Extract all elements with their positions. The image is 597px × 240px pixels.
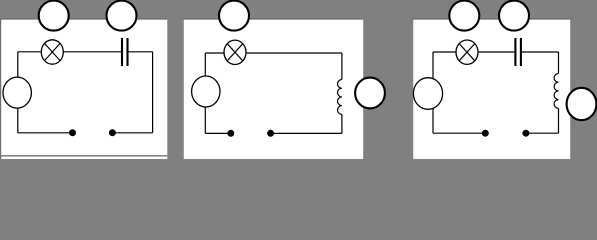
lamp B3 (circle with X) xyxy=(456,40,478,64)
wire: top right segment (capacitor to corner) xyxy=(522,51,559,53)
panel 3 top border xyxy=(412,18,570,20)
source G3 (circle overlapping left wire) xyxy=(413,78,442,110)
terminal circle T3b (above capacitor) xyxy=(499,1,529,31)
spare terminal circle (in gutter right of panel 2) xyxy=(355,78,385,109)
wire: left vertical xyxy=(204,53,206,133)
wire: right vertical xyxy=(152,52,154,133)
wire: right vertical lower (coil to corner) xyxy=(558,108,560,133)
spare terminal circle (right margin of panel 3) xyxy=(567,88,597,120)
source G1 (circle on left wire) xyxy=(3,77,31,108)
wire: bottom right segment xyxy=(112,132,152,134)
capacitor C1 plate right xyxy=(126,38,128,66)
panel 1 top border xyxy=(0,18,167,20)
switch contact dot left xyxy=(227,130,234,137)
wire: bottom right segment xyxy=(526,132,559,134)
wire: right vertical upper (to coil) xyxy=(341,53,343,80)
terminal circle T3a (above lamp) xyxy=(449,1,479,31)
panel 3 background xyxy=(412,20,570,160)
wire: top left segment (corner to capacitor) xyxy=(18,51,122,53)
terminal circle T1b (above capacitor) xyxy=(107,1,137,31)
switch contact dot right xyxy=(267,130,274,137)
panel 1 bottom edge line xyxy=(0,155,167,157)
panel 2 top border xyxy=(183,18,364,20)
panel 2 background xyxy=(183,20,364,160)
panel 3 left border xyxy=(412,19,414,159)
terminal circle T2 (above lamp) xyxy=(219,1,249,31)
switch contact dot right xyxy=(109,129,116,136)
switch contact dot left xyxy=(482,130,489,137)
wire: top horizontal xyxy=(205,52,342,54)
wire: bottom left segment xyxy=(433,132,485,134)
wire: top right segment (capacitor to corner) xyxy=(128,51,153,53)
capacitor C3 plate left xyxy=(514,38,516,66)
panel 1 background xyxy=(1,20,167,160)
wire: bottom left segment xyxy=(18,132,73,134)
inductor L3 (coil on right wire) xyxy=(554,74,558,109)
lamp B1 (circle with X) xyxy=(41,40,63,64)
lamp B2 (circle with X) xyxy=(224,40,246,64)
wire: right vertical upper (to coil) xyxy=(558,52,560,74)
switch contact dot left xyxy=(69,129,76,136)
desktop background xyxy=(0,0,597,159)
panel 1 left border xyxy=(0,19,2,159)
inductor L2 (coil on right wire) xyxy=(338,80,342,115)
wire: left vertical xyxy=(17,52,19,133)
wire: right vertical lower (coil to corner) xyxy=(341,114,343,133)
panel 2 left border xyxy=(182,19,184,159)
wire: top left segment (corner to capacitor) xyxy=(433,51,514,53)
wire: left vertical xyxy=(432,52,434,133)
capacitor C1 plate left xyxy=(121,38,123,66)
wire: bottom right segment xyxy=(271,132,342,134)
switch contact dot right xyxy=(522,130,529,137)
terminal circle T1a (above lamp) xyxy=(39,1,69,31)
source G2 (circle on left wire) xyxy=(192,76,220,107)
wire: bottom left segment xyxy=(205,132,231,134)
capacitor C3 plate right xyxy=(520,38,522,66)
